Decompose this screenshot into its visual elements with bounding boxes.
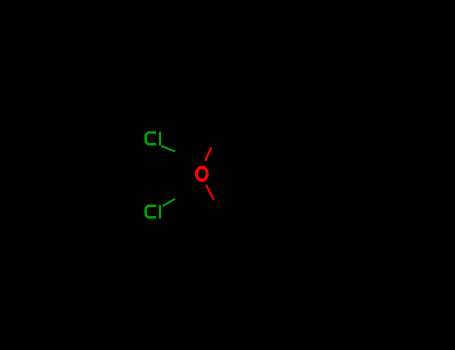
bond C-Cl (green stub, bottom) [163, 199, 175, 206]
atom label Cl (top) [146, 132, 160, 146]
bond O-C (red stub, lower) [206, 185, 214, 200]
atom label O (epoxide oxygen, drawn as bold ring) [196, 167, 207, 180]
bond O-C (red stub, upper) [205, 147, 211, 161]
atom label Cl (bottom) [146, 205, 160, 219]
bond C-Cl (green stub, top) [161, 146, 175, 152]
